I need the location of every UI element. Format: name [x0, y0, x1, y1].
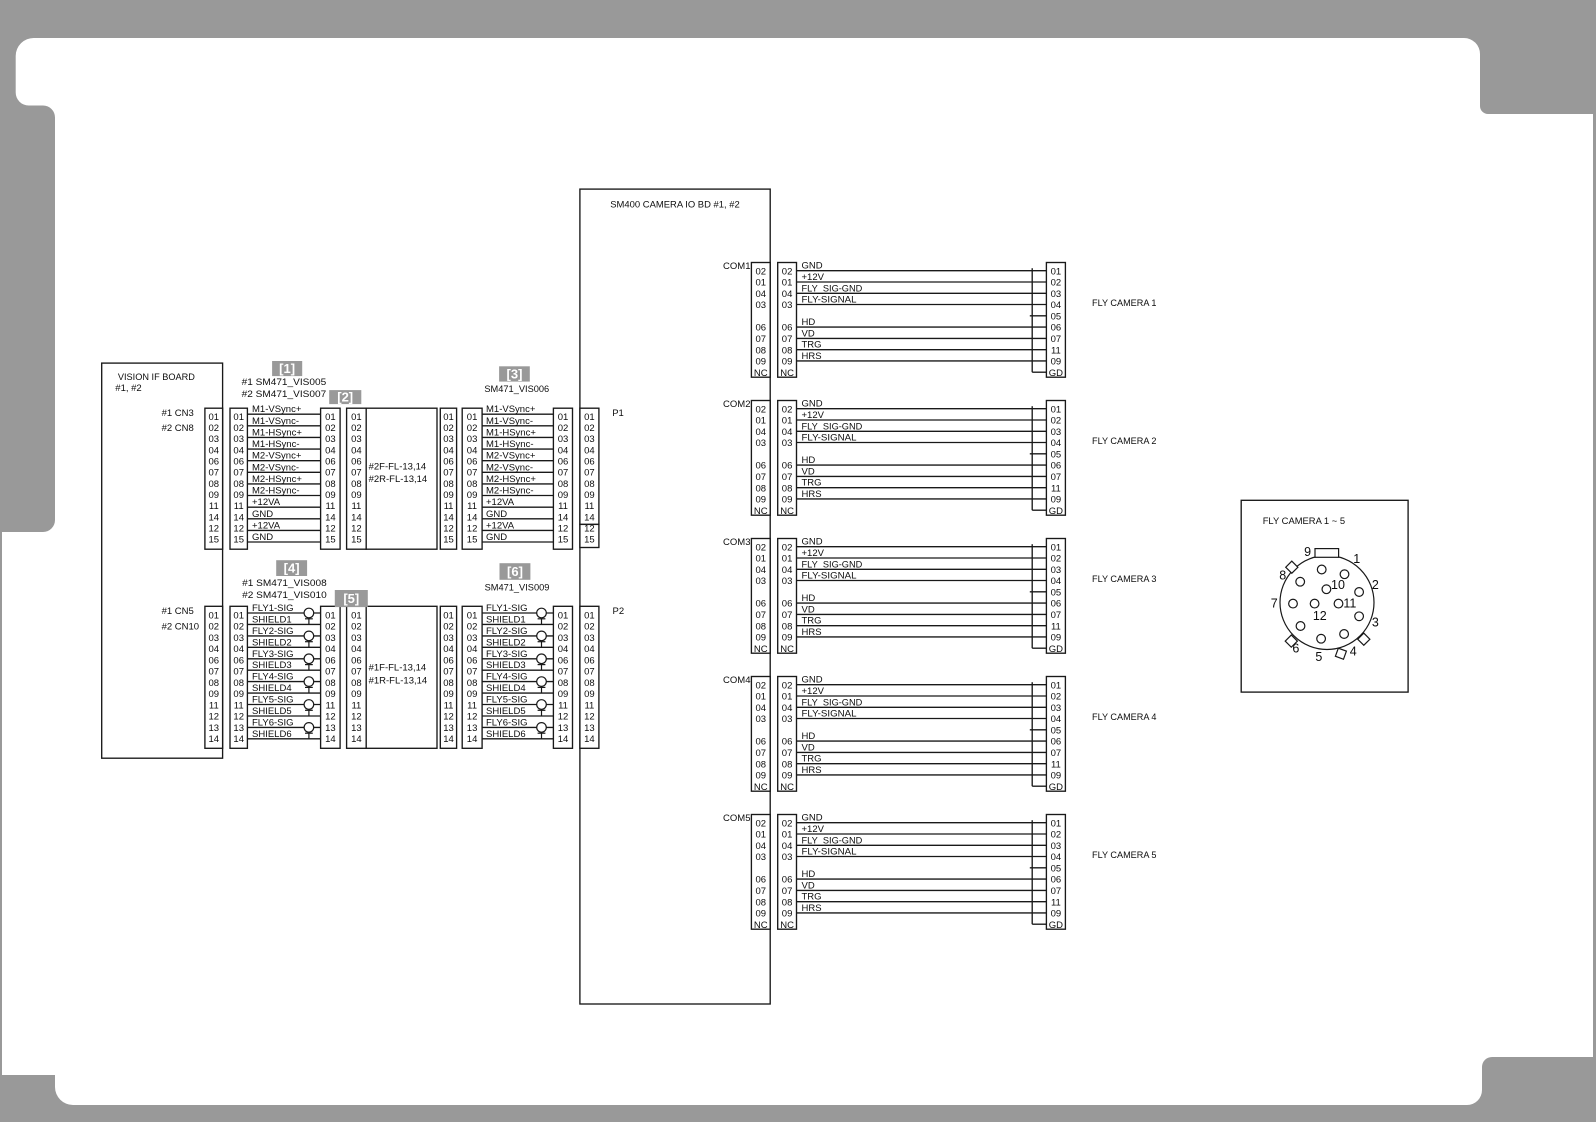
- svg-text:03: 03: [756, 300, 767, 311]
- svg-text:02: 02: [233, 423, 244, 434]
- wire FLY4-SIG (right): [482, 681, 553, 683]
- connector column G1 ribbon left pins: [347, 408, 367, 549]
- svg-text:03: 03: [558, 633, 569, 644]
- wire COM5 HRS: [797, 912, 1047, 914]
- svg-text:02: 02: [558, 622, 569, 633]
- svg-text:09: 09: [584, 490, 595, 501]
- wire COM5 FLY-SIGNAL: [797, 856, 1047, 858]
- svg-text:03: 03: [325, 434, 336, 445]
- svg-text:SHIELD4: SHIELD4: [252, 683, 292, 694]
- svg-text:03: 03: [233, 633, 244, 644]
- wire COM2 FLY_SIG-GND: [797, 430, 1047, 432]
- shield ground symbol 3 (right): [537, 654, 547, 670]
- wire M1-VSync+ (left): [247, 413, 320, 415]
- svg-text:07: 07: [782, 334, 793, 345]
- svg-text:FLY_SIG-GND: FLY_SIG-GND: [802, 421, 863, 432]
- wire SHIELD6 (left): [247, 738, 320, 740]
- svg-text:12: 12: [558, 712, 569, 723]
- COM3 ground bus: [1031, 544, 1033, 648]
- wire M2-HSync+ (left): [247, 483, 320, 485]
- FLY CAMERA 4 connector box: [1046, 677, 1065, 792]
- reference label [6]: [500, 563, 531, 580]
- svg-text:SHIELD5: SHIELD5: [486, 706, 526, 717]
- svg-text:04: 04: [1051, 438, 1062, 449]
- svg-text:08: 08: [756, 345, 767, 356]
- svg-text:11: 11: [325, 501, 335, 512]
- COM1 stub to pin 05: [1030, 315, 1047, 317]
- svg-text:FLY CAMERA 4: FLY CAMERA 4: [1092, 712, 1157, 723]
- wire +12VA (right): [482, 506, 553, 508]
- svg-text:M1-HSync+: M1-HSync+: [252, 427, 302, 438]
- svg-text:01: 01: [443, 412, 454, 423]
- svg-text:14: 14: [558, 734, 569, 745]
- svg-text:FLY6-SIG: FLY6-SIG: [252, 717, 294, 728]
- svg-text:[2]: [2]: [337, 390, 353, 405]
- connector column G2 col1 (board edge): [205, 606, 223, 748]
- COM2 ground bus: [1031, 406, 1033, 510]
- svg-text:[6]: [6]: [507, 564, 523, 579]
- wire +12VA (right): [482, 529, 553, 531]
- svg-text:14: 14: [325, 734, 336, 745]
- svg-text:04: 04: [584, 644, 595, 655]
- svg-text:+12V: +12V: [802, 410, 825, 421]
- svg-text:04: 04: [782, 703, 793, 714]
- svg-text:13: 13: [325, 723, 336, 734]
- svg-text:14: 14: [467, 734, 478, 745]
- svg-text:03: 03: [209, 633, 220, 644]
- svg-text:14: 14: [584, 734, 595, 745]
- svg-text:03: 03: [233, 434, 244, 445]
- svg-text:04: 04: [467, 445, 478, 456]
- svg-text:08: 08: [351, 678, 362, 689]
- svg-text:FLY-SIGNAL: FLY-SIGNAL: [802, 433, 857, 444]
- svg-text:07: 07: [1051, 610, 1062, 621]
- svg-text:09: 09: [351, 689, 362, 700]
- connector column G2 col5: [553, 606, 572, 748]
- COM3 column A (board edge): [751, 539, 770, 654]
- svg-text:GND: GND: [802, 813, 823, 824]
- COM1 ground bus: [1031, 268, 1033, 372]
- svg-text:08: 08: [209, 479, 220, 490]
- svg-text:FLY-SIGNAL: FLY-SIGNAL: [802, 847, 857, 858]
- svg-text:02: 02: [1051, 830, 1062, 841]
- svg-text:12: 12: [467, 712, 478, 723]
- svg-text:11: 11: [467, 501, 477, 512]
- svg-text:12: 12: [584, 524, 595, 535]
- svg-text:09: 09: [467, 689, 478, 700]
- svg-text:06: 06: [443, 656, 454, 667]
- svg-text:NC: NC: [780, 782, 794, 793]
- wire COM2 HD: [797, 464, 1047, 466]
- svg-text:14: 14: [584, 512, 595, 523]
- svg-text:03: 03: [756, 714, 767, 725]
- connector P1 lower box (pins 12,15): [580, 524, 599, 547]
- svg-text:#1 CN5: #1 CN5: [162, 606, 194, 617]
- svg-text:11: 11: [1051, 759, 1061, 770]
- svg-text:02: 02: [782, 404, 793, 415]
- svg-text:04: 04: [558, 445, 569, 456]
- svg-text:P1: P1: [612, 408, 624, 419]
- svg-text:SHIELD1: SHIELD1: [486, 614, 526, 625]
- svg-text:07: 07: [1051, 334, 1062, 345]
- COM4 ground bus: [1031, 682, 1033, 786]
- svg-text:VD: VD: [802, 328, 815, 339]
- svg-text:01: 01: [756, 278, 767, 289]
- shield ground symbol 6 (right): [537, 723, 547, 739]
- svg-text:06: 06: [1051, 323, 1062, 334]
- svg-text:01: 01: [351, 412, 362, 423]
- svg-text:FLY_SIG-GND: FLY_SIG-GND: [802, 559, 863, 570]
- connector pin holes: [1289, 565, 1364, 643]
- svg-text:01: 01: [233, 611, 244, 622]
- wire COM5 TRG: [797, 901, 1047, 903]
- svg-text:VD: VD: [802, 604, 815, 615]
- svg-text:COM5: COM5: [723, 813, 750, 824]
- svg-text:07: 07: [233, 468, 244, 479]
- svg-text:01: 01: [756, 416, 767, 427]
- svg-text:08: 08: [756, 897, 767, 908]
- svg-text:TRG: TRG: [802, 754, 822, 765]
- svg-text:04: 04: [1051, 300, 1062, 311]
- svg-text:11: 11: [234, 701, 244, 712]
- wire COM5 GND: [797, 822, 1047, 824]
- svg-text:08: 08: [351, 479, 362, 490]
- svg-text:14: 14: [233, 512, 244, 523]
- svg-text:08: 08: [558, 678, 569, 689]
- svg-text:SM471_VIS006: SM471_VIS006: [484, 384, 549, 395]
- svg-text:11: 11: [1051, 483, 1061, 494]
- wire SHIELD4 (right): [482, 692, 553, 694]
- svg-text:02: 02: [325, 622, 336, 633]
- svg-text:COM3: COM3: [723, 537, 750, 548]
- svg-text:12: 12: [467, 524, 478, 535]
- wire COM2 FLY-SIGNAL: [797, 442, 1047, 444]
- svg-text:08: 08: [782, 345, 793, 356]
- svg-text:13: 13: [467, 723, 478, 734]
- svg-text:#2 SM471_VIS007: #2 SM471_VIS007: [242, 389, 327, 400]
- wire COM3 GND: [797, 546, 1047, 548]
- reference label [4]: [276, 560, 307, 576]
- svg-text:+12V: +12V: [802, 272, 825, 283]
- svg-text:11: 11: [234, 501, 244, 512]
- FLY CAMERA 2 connector box: [1046, 401, 1065, 516]
- svg-text:03: 03: [756, 852, 767, 863]
- svg-text:06: 06: [756, 323, 767, 334]
- svg-text:02: 02: [782, 818, 793, 829]
- svg-text:07: 07: [467, 667, 478, 678]
- wire M1-VSync- (left): [247, 425, 320, 427]
- svg-text:03: 03: [782, 714, 793, 725]
- svg-text:#1, #2: #1, #2: [115, 383, 141, 394]
- svg-text:SHIELD5: SHIELD5: [252, 706, 292, 717]
- svg-text:06: 06: [467, 457, 478, 468]
- svg-text:02: 02: [467, 622, 478, 633]
- svg-text:FLY5-SIG: FLY5-SIG: [252, 695, 294, 706]
- svg-text:02: 02: [584, 622, 595, 633]
- svg-text:COM4: COM4: [723, 675, 750, 686]
- svg-text:07: 07: [756, 886, 767, 897]
- keying tab near pin 4: [1358, 633, 1370, 645]
- svg-text:NC: NC: [754, 920, 768, 931]
- svg-text:03: 03: [584, 633, 595, 644]
- svg-text:10: 10: [1331, 578, 1345, 592]
- svg-text:+12V: +12V: [802, 686, 825, 697]
- shield ground symbol 4 (right): [537, 677, 547, 693]
- svg-text:SHIELD2: SHIELD2: [486, 637, 526, 648]
- svg-text:COM1: COM1: [723, 261, 750, 272]
- svg-text:FLY CAMERA 1: FLY CAMERA 1: [1092, 298, 1157, 309]
- svg-text:FLY2-SIG: FLY2-SIG: [486, 626, 528, 637]
- wire +12VA (left): [247, 506, 320, 508]
- svg-text:12: 12: [209, 524, 220, 535]
- wire M2-HSync+ (right): [482, 483, 553, 485]
- wire M1-HSync- (left): [247, 448, 320, 450]
- svg-text:07: 07: [584, 468, 595, 479]
- wire FLY3-SIG (left): [247, 658, 320, 660]
- G1 ribbon cable box: [366, 408, 437, 549]
- shield ground symbol 3 (left): [304, 654, 314, 670]
- svg-text:13: 13: [584, 723, 595, 734]
- reference label [2]: [329, 390, 361, 405]
- svg-text:08: 08: [756, 759, 767, 770]
- svg-text:06: 06: [467, 656, 478, 667]
- svg-text:01: 01: [782, 692, 793, 703]
- svg-text:M1-HSync-: M1-HSync-: [252, 439, 300, 450]
- svg-text:04: 04: [209, 644, 220, 655]
- svg-text:07: 07: [1051, 472, 1062, 483]
- svg-text:14: 14: [209, 734, 220, 745]
- wire COM1 FLY-SIGNAL: [797, 304, 1047, 306]
- wire FLY2-SIG (right): [482, 635, 553, 637]
- svg-text:#2 CN8: #2 CN8: [162, 423, 194, 434]
- svg-text:01: 01: [756, 830, 767, 841]
- svg-text:07: 07: [209, 667, 220, 678]
- svg-text:07: 07: [325, 468, 336, 479]
- svg-text:COM2: COM2: [723, 399, 750, 410]
- shield ground symbol 5 (left): [304, 700, 314, 716]
- connector column G1 col4: [462, 408, 482, 549]
- svg-text:02: 02: [782, 542, 793, 553]
- wire COM4 +12V: [797, 695, 1047, 697]
- svg-text:04: 04: [756, 289, 767, 300]
- svg-text:VD: VD: [802, 742, 815, 753]
- svg-text:02: 02: [756, 266, 767, 277]
- svg-text:#1F-FL-13,14: #1F-FL-13,14: [369, 663, 427, 674]
- svg-text:04: 04: [756, 427, 767, 438]
- wire FLY6-SIG (left): [247, 726, 320, 728]
- svg-text:03: 03: [782, 852, 793, 863]
- svg-text:M2-VSync+: M2-VSync+: [252, 451, 302, 462]
- svg-text:07: 07: [1051, 748, 1062, 759]
- svg-text:08: 08: [584, 678, 595, 689]
- svg-text:08: 08: [782, 759, 793, 770]
- svg-text:HRS: HRS: [802, 351, 822, 362]
- svg-text:HRS: HRS: [802, 903, 822, 914]
- svg-text:FLY5-SIG: FLY5-SIG: [486, 695, 528, 706]
- svg-text:+12V: +12V: [802, 824, 825, 835]
- svg-text:06: 06: [782, 323, 793, 334]
- svg-text:03: 03: [1051, 841, 1062, 852]
- svg-text:02: 02: [467, 423, 478, 434]
- svg-text:02: 02: [756, 818, 767, 829]
- wire COM3 +12V: [797, 557, 1047, 559]
- svg-text:09: 09: [1051, 771, 1062, 782]
- svg-text:08: 08: [325, 678, 336, 689]
- COM4 column B: [778, 677, 797, 792]
- svg-text:07: 07: [558, 667, 569, 678]
- svg-text:09: 09: [782, 909, 793, 920]
- svg-text:#1R-FL-13,14: #1R-FL-13,14: [369, 675, 428, 686]
- svg-text:03: 03: [325, 633, 336, 644]
- svg-text:#1 CN3: #1 CN3: [162, 408, 194, 419]
- svg-text:13: 13: [558, 723, 569, 734]
- svg-text:12: 12: [233, 524, 244, 535]
- wire FLY2-SIG (left): [247, 635, 320, 637]
- svg-text:04: 04: [1051, 852, 1062, 863]
- svg-text:01: 01: [467, 611, 478, 622]
- svg-text:07: 07: [756, 472, 767, 483]
- svg-text:SM400 CAMERA IO BD #1, #2: SM400 CAMERA IO BD #1, #2: [610, 199, 740, 210]
- wire SHIELD5 (right): [482, 715, 553, 717]
- connector column G2 col3: [321, 606, 341, 748]
- reference label [3]: [499, 366, 530, 381]
- svg-text:12: 12: [351, 524, 362, 535]
- svg-text:08: 08: [233, 479, 244, 490]
- svg-text:M1-VSync-: M1-VSync-: [252, 416, 299, 427]
- svg-text:04: 04: [443, 644, 454, 655]
- svg-text:GND: GND: [486, 509, 507, 520]
- svg-text:02: 02: [584, 423, 595, 434]
- wire M1-HSync+ (right): [482, 436, 553, 438]
- svg-text:P2: P2: [613, 606, 625, 617]
- keying tab near pin 6: [1285, 635, 1297, 647]
- svg-text:03: 03: [467, 434, 478, 445]
- svg-text:FLY CAMERA 5: FLY CAMERA 5: [1092, 850, 1157, 861]
- connector column G2 col2: [230, 606, 247, 748]
- svg-text:06: 06: [1051, 737, 1062, 748]
- svg-text:5: 5: [1315, 650, 1322, 664]
- svg-text:09: 09: [558, 689, 569, 700]
- svg-text:09: 09: [1051, 909, 1062, 920]
- svg-text:VD: VD: [802, 880, 815, 891]
- svg-text:02: 02: [1051, 692, 1062, 703]
- connector column G1 col5: [553, 408, 572, 549]
- svg-text:FLY_SIG-GND: FLY_SIG-GND: [802, 835, 863, 846]
- svg-text:GND: GND: [802, 537, 823, 548]
- svg-text:03: 03: [782, 438, 793, 449]
- wire COM4 FLY-SIGNAL: [797, 718, 1047, 720]
- COM4 stub to pin GD: [1032, 785, 1046, 787]
- svg-text:[5]: [5]: [343, 591, 359, 606]
- svg-text:FLY4-SIG: FLY4-SIG: [486, 672, 528, 683]
- svg-text:06: 06: [325, 457, 336, 468]
- COM1 column B: [778, 263, 797, 378]
- svg-text:01: 01: [584, 611, 595, 622]
- svg-text:12: 12: [325, 524, 336, 535]
- shield ground symbol 1 (right): [537, 608, 547, 624]
- wire M2-VSync+ (right): [482, 460, 553, 462]
- svg-text:12: 12: [443, 712, 454, 723]
- svg-text:01: 01: [782, 416, 793, 427]
- svg-text:04: 04: [467, 644, 478, 655]
- svg-text:15: 15: [351, 535, 362, 546]
- svg-text:07: 07: [443, 667, 454, 678]
- svg-text:03: 03: [351, 633, 362, 644]
- svg-text:GND: GND: [486, 532, 507, 543]
- COM5 stub to pin 05: [1030, 867, 1047, 869]
- svg-text:SHIELD6: SHIELD6: [252, 729, 292, 740]
- connector column G1 ribbon right pins: [440, 408, 456, 549]
- svg-text:11: 11: [444, 701, 454, 712]
- svg-text:12: 12: [1313, 609, 1327, 623]
- svg-text:HD: HD: [802, 869, 816, 880]
- wire COM2 VD: [797, 475, 1047, 477]
- svg-text:06: 06: [351, 457, 362, 468]
- svg-text:NC: NC: [754, 644, 768, 655]
- wire COM5 FLY_SIG-GND: [797, 844, 1047, 846]
- svg-text:02: 02: [443, 423, 454, 434]
- svg-text:TRG: TRG: [802, 616, 822, 627]
- svg-text:12: 12: [209, 712, 220, 723]
- wire COM4 HD: [797, 740, 1047, 742]
- keying tab near pin 8: [1286, 561, 1298, 573]
- svg-text:#1 SM471_VIS005: #1 SM471_VIS005: [242, 377, 327, 388]
- svg-text:15: 15: [584, 535, 595, 546]
- svg-text:FLY CAMERA 1 ~ 5: FLY CAMERA 1 ~ 5: [1263, 516, 1345, 527]
- svg-text:[3]: [3]: [507, 367, 523, 382]
- svg-text:M2-HSync+: M2-HSync+: [486, 474, 536, 485]
- svg-text:15: 15: [467, 535, 478, 546]
- svg-text:9: 9: [1304, 545, 1311, 559]
- svg-text:+12V: +12V: [802, 548, 825, 559]
- shield ground symbol 1 (left): [304, 608, 314, 624]
- svg-text:08: 08: [233, 678, 244, 689]
- svg-text:08: 08: [443, 479, 454, 490]
- svg-text:06: 06: [584, 656, 595, 667]
- svg-text:GD: GD: [1049, 920, 1063, 931]
- wire +12VA (left): [247, 529, 320, 531]
- connector column G1 col2: [230, 408, 247, 549]
- svg-text:09: 09: [782, 633, 793, 644]
- svg-text:06: 06: [209, 656, 220, 667]
- svg-text:M2-VSync-: M2-VSync-: [486, 462, 533, 473]
- svg-text:04: 04: [325, 644, 336, 655]
- svg-text:05: 05: [1051, 449, 1062, 460]
- svg-text:15: 15: [325, 535, 336, 546]
- wire SHIELD3 (left): [247, 669, 320, 671]
- svg-text:01: 01: [1051, 404, 1062, 415]
- svg-text:15: 15: [233, 535, 244, 546]
- shield ground symbol 5 (right): [537, 700, 547, 716]
- COM1 column A (board edge): [751, 263, 770, 378]
- svg-text:02: 02: [351, 622, 362, 633]
- svg-text:09: 09: [443, 689, 454, 700]
- svg-text:07: 07: [756, 610, 767, 621]
- svg-text:02: 02: [782, 680, 793, 691]
- svg-text:SHIELD6: SHIELD6: [486, 729, 526, 740]
- svg-text:01: 01: [782, 830, 793, 841]
- svg-text:03: 03: [1051, 427, 1062, 438]
- svg-text:04: 04: [233, 445, 244, 456]
- shield ground symbol 2 (left): [304, 631, 314, 647]
- svg-text:1: 1: [1353, 552, 1360, 566]
- wire FLY6-SIG (right): [482, 726, 553, 728]
- svg-text:04: 04: [782, 289, 793, 300]
- svg-text:06: 06: [351, 656, 362, 667]
- svg-text:15: 15: [558, 535, 569, 546]
- svg-text:01: 01: [782, 554, 793, 565]
- svg-text:08: 08: [782, 897, 793, 908]
